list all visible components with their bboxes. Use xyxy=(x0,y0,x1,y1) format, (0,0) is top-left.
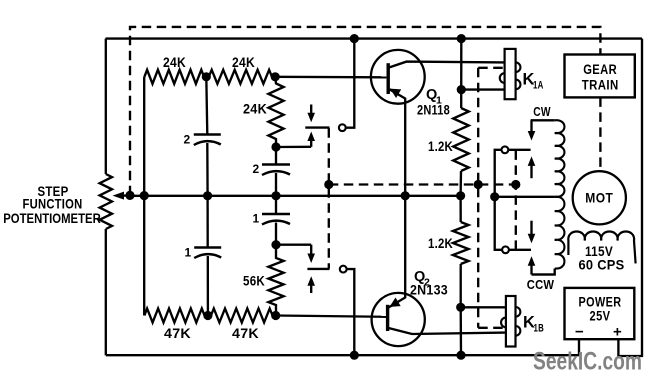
svg-text:2: 2 xyxy=(253,162,260,176)
dashed mechanical linkage border (pot to gear train) xyxy=(130,27,600,195)
node junction 24K-24K xyxy=(202,72,211,81)
label STEP FUNCTION POTENTIOMETER xyxy=(3,184,101,226)
wire left rail lower (from potentiometer) xyxy=(105,229,107,355)
transistor Q1 base bar xyxy=(387,63,390,94)
svg-text:POTENTIOMETER: POTENTIOMETER xyxy=(3,211,101,226)
capacitor C3 value 2 xyxy=(262,165,290,176)
wire C2 down to 47K junction xyxy=(207,256,209,316)
switch S2 up arrow (actuation) xyxy=(307,276,315,293)
transistor Q2 collector xyxy=(389,328,507,334)
node bus 1.2K junction xyxy=(456,191,465,200)
svg-text:56K: 56K xyxy=(243,273,265,289)
contact CW up arrow xyxy=(528,156,536,178)
transistor Q1 collector xyxy=(389,62,505,68)
transistor Q1 emitter arrow (PNP) xyxy=(390,89,401,98)
dashed linkage CW-CCW contacts vertical xyxy=(515,150,517,249)
svg-text:MOT: MOT xyxy=(585,190,613,206)
svg-text:2: 2 xyxy=(184,133,191,147)
label 2N133 xyxy=(410,283,448,298)
label MOT xyxy=(585,190,613,206)
wire 1.2K lower lead xyxy=(460,264,462,307)
svg-text:47K: 47K xyxy=(232,325,259,341)
contact CCW fixed circle xyxy=(502,246,509,253)
relay K1B core bar xyxy=(506,296,516,347)
wire +V top bus xyxy=(106,37,643,39)
contact CW fixed circle xyxy=(502,146,509,153)
wire right rail upper xyxy=(460,39,462,108)
wire right rail lower xyxy=(460,307,463,355)
svg-text:CCW: CCW xyxy=(527,277,555,292)
wire winding bottom corner xyxy=(532,269,555,275)
node right rail on 0V bus xyxy=(456,351,465,360)
svg-text:24K: 24K xyxy=(243,101,267,117)
node bus dashed-border junction xyxy=(125,191,134,200)
svg-text:SeekIC.com: SeekIC.com xyxy=(533,348,642,376)
node junction C4 / 56K / switch xyxy=(271,240,280,249)
resistor 47K (second horizontal) xyxy=(211,309,273,323)
svg-text:GEAR: GEAR xyxy=(583,62,617,77)
block POWER 25V box xyxy=(565,288,635,339)
transistor Q2 emitter arrow (PNP) xyxy=(390,298,401,307)
contact CCW up arrow from winding xyxy=(528,256,536,274)
svg-text:CW: CW xyxy=(533,104,551,119)
contact CCW bar xyxy=(509,249,531,251)
switch S2 contact bar xyxy=(307,268,329,270)
label 24K left xyxy=(163,54,186,70)
node bus C1-C2 junction xyxy=(203,191,212,200)
svg-text:+: + xyxy=(613,324,622,341)
label 47K second xyxy=(232,325,259,341)
wire Q1 base feed xyxy=(275,76,386,79)
block GEAR TRAIN box xyxy=(565,55,635,98)
label 24K vertical xyxy=(243,101,267,117)
node S1 wire on +V bus xyxy=(350,34,359,43)
label K1A xyxy=(523,71,544,92)
label C1 value 2 xyxy=(184,133,191,147)
label 60 CPS xyxy=(579,257,625,273)
svg-text:24K: 24K xyxy=(232,54,255,70)
transistor Q2 base bar xyxy=(386,305,389,331)
node bus C3-C4 junction xyxy=(271,191,280,200)
node bus emitter junction xyxy=(401,191,410,200)
relay K1B coil loop right lower xyxy=(516,326,521,336)
wire center bus to C4 xyxy=(275,196,277,214)
label C3 value 2 xyxy=(253,162,260,176)
node dashed linkage junction mid xyxy=(474,180,483,189)
label POWER 25V xyxy=(579,295,622,324)
wire C3 to center bus xyxy=(275,173,277,196)
wire Q2 base feed xyxy=(276,316,386,317)
wire S2 contact to 0V bus xyxy=(347,269,355,355)
relay K1A coil loop left xyxy=(500,73,505,83)
svg-text:1B: 1B xyxy=(534,323,545,335)
resistor 1.2K lower xyxy=(453,222,469,264)
label 24K second xyxy=(232,54,255,70)
relay K1B coil loop right upper xyxy=(516,307,521,317)
svg-text:1.2K: 1.2K xyxy=(428,138,453,154)
wire CW contact to tap rail xyxy=(495,150,503,250)
potentiometer R1 STEP FUNCTION (element) xyxy=(100,174,112,229)
svg-text:2N133: 2N133 xyxy=(410,283,448,298)
svg-text:60 CPS: 60 CPS xyxy=(579,257,625,273)
switch S2 fixed contact circle xyxy=(340,266,347,273)
switch S1 contact bar xyxy=(305,126,329,128)
relay K1B coil loop left xyxy=(501,318,506,328)
label C2 value 1 xyxy=(185,246,192,260)
wire junction to S1 moving arm xyxy=(276,146,311,149)
wire to K1A lower terminal xyxy=(461,88,504,90)
node dashed linkage junction right xyxy=(511,180,520,189)
node K1A lower wire junction xyxy=(457,85,466,94)
wire junction to S2 moving arm xyxy=(276,244,311,246)
node +V bus to right rail xyxy=(457,34,466,43)
switch S1 up arrow (moving contact) xyxy=(307,132,315,147)
dashed linkage bus horizontal xyxy=(329,183,516,185)
wire divider column x=144 xyxy=(143,77,145,316)
wire bus to 1.2K lower xyxy=(459,196,461,222)
node junction 47K-47K xyxy=(203,311,212,320)
capacitor C2 value 1 xyxy=(194,248,221,259)
dashed linkage relay K1A-K1B vertical xyxy=(477,68,479,328)
resistor 24K (second horizontal) xyxy=(209,70,272,84)
node junction 24K vert / C3 / switch xyxy=(271,142,280,151)
capacitor C4 value 1 xyxy=(262,214,290,225)
svg-text:24K: 24K xyxy=(163,54,186,70)
label 56K xyxy=(243,273,265,289)
svg-text:25V: 25V xyxy=(590,309,611,324)
dashed stub to K1A xyxy=(478,67,504,69)
label Q1 xyxy=(426,87,442,107)
dashed linkage gear train to motor xyxy=(599,97,601,171)
label 2N118 xyxy=(417,103,450,118)
switch S2 down arrow (moving contact) xyxy=(307,245,315,263)
switch S1 down arrow (actuation) xyxy=(307,105,315,123)
label 47K left xyxy=(164,325,191,341)
label CCW xyxy=(527,277,555,292)
node S2 wire on 0V bus xyxy=(350,351,359,360)
wire 1.2K to bus xyxy=(459,171,462,196)
label 1.2K upper xyxy=(428,138,453,154)
svg-text:1.2K: 1.2K xyxy=(428,235,453,251)
label C4 value 1 xyxy=(253,212,260,226)
relay K1A coil loop right lower xyxy=(516,80,521,90)
wire POWER minus lead xyxy=(578,339,580,355)
wire to K1B upper terminal xyxy=(461,306,506,308)
node K1B upper wire junction xyxy=(456,303,465,312)
node junction 47K / Q2 base xyxy=(271,311,280,320)
wire CCW winding bottom xyxy=(532,273,555,275)
capacitor C1 value 2 xyxy=(194,135,221,146)
relay K1A coil loop right upper xyxy=(516,62,521,72)
svg-text:FUNCTION: FUNCTION xyxy=(23,197,83,212)
transistor Q1 emitter xyxy=(390,89,406,196)
transistor Q2 circle xyxy=(372,293,425,346)
svg-text:1: 1 xyxy=(185,246,192,260)
dashed linkage S1-S2 vertical xyxy=(328,128,330,268)
wire C1 to center bus xyxy=(206,143,209,196)
resistor 24K vertical xyxy=(268,77,283,147)
wire 0V bottom bus xyxy=(106,354,579,356)
transistor Q1 circle xyxy=(371,50,425,104)
svg-text:47K: 47K xyxy=(164,325,191,341)
svg-text:1A: 1A xyxy=(533,80,544,92)
inductor motor winding CW half xyxy=(555,120,565,197)
label CW xyxy=(533,104,551,119)
svg-text:POWER: POWER xyxy=(579,295,622,310)
svg-text:2N118: 2N118 xyxy=(417,103,450,118)
label 1.2K lower xyxy=(428,235,453,251)
label plus terminal xyxy=(613,324,622,341)
wire 24K junction down to C1 xyxy=(206,77,207,135)
svg-text:TRAIN: TRAIN xyxy=(582,78,619,93)
wire CW winding top xyxy=(531,119,555,121)
svg-text:1: 1 xyxy=(253,212,260,226)
wire junction to C3 xyxy=(275,147,277,165)
resistor 56K vertical xyxy=(268,245,283,316)
node center tap junction xyxy=(490,192,499,201)
inductor motor winding CCW half xyxy=(555,197,565,269)
switch S1 fixed contact circle xyxy=(339,124,346,131)
label 115V xyxy=(585,243,613,259)
node bus divider junction xyxy=(140,191,149,200)
resistor 47K (left horizontal) xyxy=(144,309,204,323)
contact CCW down arrow xyxy=(528,221,536,244)
label GEAR TRAIN xyxy=(582,62,619,93)
wire C4 to 56K junction xyxy=(275,223,277,245)
inductor 115V line xyxy=(568,232,635,264)
dashed stub to K1B xyxy=(478,327,503,329)
contact CW bar xyxy=(508,149,530,151)
wire S1 contact to +V bus xyxy=(346,39,355,128)
svg-text:−: − xyxy=(575,324,584,341)
relay K1A core bar xyxy=(505,49,516,99)
transistor Q2 emitter xyxy=(389,196,406,308)
resistor 1.2K upper xyxy=(453,108,469,171)
wire center tap to winding xyxy=(495,196,555,198)
contact CW down arrow from winding xyxy=(528,120,536,140)
label Q2 xyxy=(414,269,430,289)
wire wiper center bus xyxy=(130,195,461,197)
resistor 24K (left horizontal) xyxy=(144,70,204,84)
wire right-side +V rail xyxy=(618,39,642,356)
label K1B xyxy=(523,314,544,335)
label minus terminal xyxy=(575,324,584,341)
watermark SeekIC.com xyxy=(533,348,642,376)
potentiometer wiper arrow xyxy=(113,192,131,200)
wire center bus to C2 xyxy=(206,196,208,248)
wire left rail upper (to potentiometer) xyxy=(105,39,107,174)
motor MOT circle xyxy=(573,171,626,224)
node junction 24K / Q1 base xyxy=(271,72,280,81)
node dashed linkage junction left xyxy=(324,180,333,189)
